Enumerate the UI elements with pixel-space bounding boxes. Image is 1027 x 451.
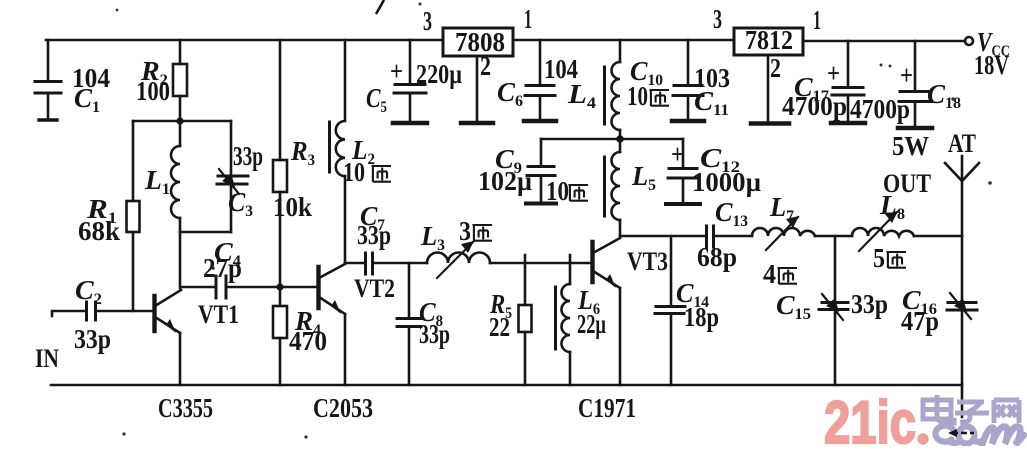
svg-text:22µ: 22µ [577, 309, 606, 339]
svg-text:22: 22 [489, 312, 510, 342]
svg-text:33p: 33p [357, 220, 391, 250]
inductor L3 variable [427, 253, 490, 264]
svg-text:21ic: 21ic [824, 389, 916, 446]
wire tap node line [541, 138, 683, 141]
svg-text:C2053: C2053 [313, 393, 373, 423]
resistor R5 [524, 255, 527, 305]
wire L8 to antenna node [914, 235, 962, 238]
capacitor C6 [539, 40, 542, 85]
C16 arrow head [954, 298, 967, 312]
regulator U2 7812 [734, 28, 803, 55]
resistor R3 [279, 40, 282, 160]
svg-text:4: 4 [763, 259, 776, 289]
inductor L6 [569, 255, 572, 284]
svg-text:1000µ: 1000µ [692, 167, 761, 197]
svg-text:2: 2 [770, 53, 781, 83]
svg-text:10: 10 [627, 81, 648, 111]
svg-text:18p: 18p [684, 302, 719, 332]
svg-text:4700p: 4700p [782, 91, 847, 121]
resistor R4 [279, 287, 282, 306]
watermark dot [917, 433, 928, 444]
svg-text:AT: AT [948, 129, 976, 158]
capacitor C3 variable [230, 121, 233, 176]
capacitor C18 [914, 41, 917, 91]
L8 arrow head [885, 211, 898, 223]
capacitor C5 [409, 40, 412, 84]
measure arrow mark [952, 432, 974, 435]
svg-text:18V: 18V [974, 50, 1009, 80]
capacitor C14 [670, 236, 673, 306]
input wire IN [52, 311, 86, 316]
svg-text:3: 3 [423, 6, 432, 36]
node VT2 base [276, 283, 283, 290]
capacitor C9 [540, 139, 543, 166]
svg-text:470: 470 [289, 326, 327, 356]
wire 7812 out to Vcc terminal [803, 40, 965, 43]
svg-text:220µ: 220µ [416, 59, 462, 89]
svg-text:IN: IN [35, 344, 59, 373]
inductor L7 variable [752, 228, 815, 236]
regulator U1 7808 [443, 28, 513, 56]
transistor VT1 [152, 296, 156, 331]
resistor R2 [179, 40, 182, 64]
watermark CJK dian [923, 395, 954, 423]
svg-text:2: 2 [480, 51, 491, 81]
svg-text:VT3: VT3 [627, 247, 668, 276]
svg-text:68p: 68p [697, 242, 737, 272]
svg-text:33p: 33p [851, 289, 888, 319]
capacitor C12 [682, 139, 685, 168]
watermark CJK wang [994, 400, 1019, 423]
stray slash mark [376, 0, 384, 14]
svg-text:1: 1 [524, 4, 532, 34]
VT3 emitter arrow [606, 274, 616, 288]
svg-text:4700p: 4700p [850, 94, 910, 124]
inductor L1 [179, 121, 182, 146]
label L4 turns unit [650, 90, 670, 106]
capacitor C17 [847, 41, 850, 87]
wire 7812 pin2 ground [767, 55, 770, 122]
svg-text:10: 10 [343, 157, 365, 187]
L4 core [603, 67, 606, 124]
L3 arrow head [461, 241, 474, 253]
wire antenna stub below rail [961, 385, 964, 410]
wire tank bottom [180, 231, 231, 234]
svg-text:27p: 27p [203, 253, 242, 283]
watermark CJK zi [955, 402, 989, 422]
resistor R1 [132, 121, 135, 201]
svg-text:VT2: VT2 [354, 274, 395, 303]
svg-text:VT1: VT1 [198, 300, 239, 329]
capacitor C4 [181, 286, 215, 289]
svg-text:33p: 33p [419, 319, 450, 349]
svg-text:3: 3 [713, 4, 722, 34]
capacitor C15 variable [834, 236, 837, 302]
svg-text:68k: 68k [78, 216, 120, 246]
wire 7808 pin2 ground [476, 56, 479, 122]
svg-text:100: 100 [136, 76, 170, 106]
svg-text:33p: 33p [74, 324, 111, 354]
transistor VT3 [590, 242, 594, 282]
label L3 turns unit [473, 225, 493, 241]
L2 core [328, 122, 331, 172]
watermark script m [982, 427, 1024, 445]
inductor L8 variable [852, 228, 914, 236]
inductor L5 [619, 139, 622, 152]
watermark script o [958, 427, 982, 444]
svg-text:+: + [390, 56, 403, 86]
svg-text:+: + [900, 60, 913, 90]
inductor L4 [619, 40, 622, 62]
VT1 emitter arrow [166, 319, 176, 333]
capacitor C8 [408, 263, 411, 318]
wire VT1 collector [179, 232, 182, 288]
bottom ground rail [51, 384, 962, 387]
svg-text:10k: 10k [273, 192, 312, 222]
capacitor C2 [85, 302, 88, 320]
label L5 turns unit [569, 185, 589, 201]
label L8 turns unit [887, 252, 907, 268]
C15 arrow head [826, 298, 839, 312]
VT2 emitter arrow [331, 300, 341, 314]
capacitor C11 [687, 40, 690, 85]
svg-text:102µ: 102µ [478, 166, 532, 196]
transistor VT2 [316, 267, 320, 308]
capacitor C13 [705, 226, 708, 247]
svg-text:C3355: C3355 [158, 393, 213, 423]
label L7 turns unit [778, 268, 798, 284]
svg-text:5W: 5W [892, 131, 929, 161]
wire 7808 out to 7812 in [513, 39, 734, 42]
top VCC input rail [46, 39, 443, 42]
svg-text:33p: 33p [233, 141, 263, 171]
svg-text:+: + [671, 139, 684, 169]
node R2-bias [176, 117, 183, 124]
Vcc terminal [965, 37, 973, 45]
svg-text:3: 3 [459, 216, 471, 246]
svg-text:7812: 7812 [745, 25, 793, 55]
L5 core [603, 157, 606, 216]
svg-text:1: 1 [813, 5, 821, 35]
wire L7 to L8 [815, 235, 852, 238]
capacitor C7 [345, 262, 364, 265]
wire bias node line [133, 120, 231, 123]
svg-text:10: 10 [546, 176, 569, 206]
arrows (filled) [166, 173, 967, 333]
capacitor C1 [47, 40, 50, 81]
svg-text:C1971: C1971 [578, 393, 636, 423]
svg-text:47p: 47p [901, 306, 939, 336]
C3 arrow head [222, 173, 235, 187]
inductor L2 [344, 40, 347, 120]
capacitor C16 variable [961, 236, 964, 302]
svg-text:5: 5 [873, 243, 885, 273]
wire VT3 collector output line [620, 235, 705, 238]
svg-text:+: + [827, 58, 840, 88]
L6 core [554, 287, 557, 349]
label L2 turns unit [372, 166, 392, 182]
L7 arrow head [786, 216, 799, 228]
wire L3 to VT3 base [490, 262, 592, 265]
wire C2 to VT1 base [96, 310, 153, 313]
antenna AT [961, 156, 964, 236]
node L4 L5 tap [616, 135, 624, 143]
watermark script c [935, 426, 959, 443]
